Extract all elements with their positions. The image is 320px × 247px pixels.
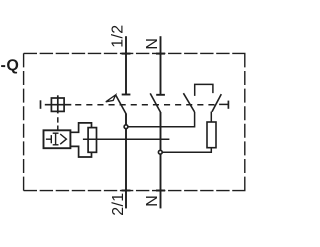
trip relay symbol -I> [46, 133, 67, 145]
terminal tick pole N bottom (on enclosure) [156, 190, 165, 192]
test terminal tick (on enclosure, left) [40, 100, 42, 109]
wire: test circuit from node A [126, 112, 195, 127]
current transformer secondary winding [88, 128, 96, 153]
node A (junction on pole 1/2) [124, 125, 128, 129]
node B (junction on pole N) [158, 150, 162, 154]
test contact blade (left) [183, 93, 194, 112]
wire: resistor to node B [160, 148, 211, 153]
test resistor R1 [207, 122, 216, 148]
terminal tick pole 2/1 bottom (on enclosure) [122, 190, 131, 192]
wire: right blade to resistor [210, 112, 212, 122]
switch blade pole 1/2 [116, 95, 126, 114]
wire: pole N lower conductor [160, 112, 162, 208]
trip relay U1 (box) [44, 130, 71, 148]
switch blade pole N [150, 93, 160, 112]
mechanical linkage (dashed) [75, 104, 219, 106]
current transformer W1 (core with winding) [71, 123, 92, 157]
svg-text:1/2: 1/2 [109, 25, 126, 48]
test contact fixed tick [227, 101, 229, 109]
actuation arrow on pole 1/2 blade [106, 95, 116, 102]
wire: pole N top lead [160, 36, 162, 94]
terminal tick pole N top (on enclosure) [156, 53, 165, 55]
terminal tick pole 1/2 top (on enclosure) [122, 53, 131, 55]
fixed contact bar pole N [156, 94, 165, 96]
dashed link: test button to trip relay [57, 117, 59, 130]
wire: CT secondary to pole N [83, 138, 169, 140]
device outline (dashed enclosure) [24, 53, 246, 190]
svg-text:2/1: 2/1 [110, 193, 127, 216]
svg-text:-Q: -Q [0, 57, 19, 74]
svg-text:N: N [144, 195, 161, 207]
test contact blade (right) [212, 94, 221, 112]
svg-text:N: N [144, 38, 161, 50]
test contact bridge (inverted U) [195, 84, 213, 96]
fixed contact bar pole 1/2 [122, 94, 131, 96]
wire: pole 1/2 top lead [125, 36, 127, 94]
wire: pole 1/2 lower conductor [125, 114, 127, 209]
test contact fixed lead (right) [219, 103, 228, 105]
test button T (square with cross) [45, 95, 72, 113]
